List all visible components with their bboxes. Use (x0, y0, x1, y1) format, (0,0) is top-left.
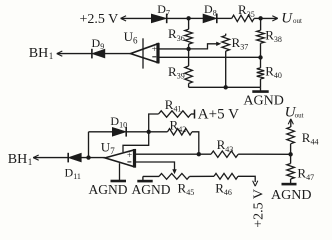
op-amp U6 (131, 44, 159, 63)
svg-text:10: 10 (119, 121, 127, 130)
svg-text:AGND: AGND (243, 93, 283, 108)
svg-text:U: U (281, 10, 293, 26)
svg-text:6: 6 (133, 36, 138, 46)
svg-text:D: D (157, 2, 166, 16)
ground AGND (U7 pin) (119, 163, 121, 181)
wire D11 to U7 output (81, 157, 105, 159)
svg-text:9: 9 (100, 42, 104, 51)
svg-text:R: R (265, 64, 274, 79)
resistor R36 (188, 18, 190, 29)
svg-text:41: 41 (174, 104, 182, 113)
wire D7 to node (167, 17, 189, 19)
ground AGND (R45) (142, 176, 144, 181)
svg-text:BH: BH (29, 46, 48, 61)
terminal arrow BH1 (bottom) (33, 155, 39, 160)
wire BH1 to D11 (33, 157, 68, 159)
svg-text:38: 38 (274, 35, 282, 44)
svg-text:45: 45 (186, 188, 194, 197)
svg-text:37: 37 (240, 42, 248, 51)
wire D9 to BH1 (top) (57, 53, 92, 55)
node output junction (bottom) (86, 155, 90, 159)
node noninverting input junction U6 (186, 47, 190, 51)
arrow up to Uout (bottom) (288, 119, 293, 125)
svg-text:11: 11 (73, 172, 81, 181)
resistor R42 (149, 131, 168, 133)
op-amp U7 (105, 150, 135, 167)
potentiometer R45 (143, 175, 159, 177)
svg-text:7: 7 (110, 146, 115, 156)
svg-text:BH: BH (8, 152, 27, 167)
svg-text:R: R (297, 165, 306, 180)
svg-text:D: D (92, 36, 101, 50)
wire U6 +input (158, 48, 189, 50)
svg-text:R: R (238, 2, 247, 17)
terminal arrow BH1 (top) (57, 51, 63, 56)
svg-text:R: R (168, 64, 177, 79)
svg-text:1: 1 (28, 157, 33, 167)
svg-text:R: R (215, 181, 224, 196)
resistor R43 (211, 151, 238, 157)
wire bottom rail (top circuit) (189, 86, 261, 88)
wire U7 -input to R45 wiper (135, 162, 175, 170)
wire wiper branch to R37 (189, 44, 217, 49)
svg-text:R: R (265, 28, 274, 43)
resistor R39 (188, 49, 190, 66)
svg-text:1: 1 (49, 51, 54, 61)
svg-text:40: 40 (274, 71, 282, 80)
wire R35 to output node (254, 17, 261, 19)
potentiometer R37 (225, 34, 227, 36)
svg-text:8: 8 (213, 9, 217, 18)
wire +2.5V to D7 (121, 17, 152, 19)
resistor R41 to A+5V (149, 114, 159, 132)
ground AGND (R47) (282, 183, 297, 186)
resistor R40 (260, 57, 262, 68)
terminal arrow at +2.5V (121, 16, 127, 21)
wire U7 V+ pin to D10 node (123, 132, 149, 153)
svg-text:R: R (165, 97, 174, 112)
svg-text:R: R (170, 118, 179, 133)
svg-text:R: R (168, 26, 177, 41)
resistor R46 (214, 173, 238, 179)
svg-text:+: + (127, 151, 132, 161)
svg-text:R: R (217, 137, 226, 152)
svg-text:AGND: AGND (132, 182, 171, 197)
resistor R38 (260, 18, 262, 30)
wire node to D8 (189, 17, 203, 19)
wire D8 to R35 (217, 17, 232, 19)
resistor R35 (232, 15, 254, 21)
svg-text:R: R (178, 181, 187, 196)
arrow to Uout (top) (261, 17, 277, 19)
svg-text:+: + (152, 45, 157, 55)
wire D10 to node (126, 131, 148, 133)
node inverting feedback junction (258, 55, 262, 59)
node U7 +input junction (197, 152, 201, 156)
node R44/R47 junction (288, 152, 292, 156)
svg-text:39: 39 (177, 72, 185, 81)
svg-text:44: 44 (311, 137, 319, 146)
svg-text:AGND: AGND (89, 182, 128, 197)
resistor R47 (290, 154, 292, 163)
svg-text:out: out (293, 17, 302, 25)
diode D10 (112, 127, 126, 136)
wire up to D10 (88, 132, 90, 158)
node output junction top (258, 16, 262, 20)
svg-text:D: D (65, 165, 74, 179)
wire R45 to R46 (190, 175, 215, 177)
svg-text:D: D (110, 114, 119, 128)
node junction top (R36 tap) (186, 16, 190, 20)
svg-text:43: 43 (225, 145, 233, 154)
resistor R44 (287, 127, 295, 144)
svg-text:out: out (295, 111, 304, 119)
svg-text:AGND: AGND (271, 188, 311, 203)
wire R43 to R44/R47 node (238, 153, 290, 155)
svg-text:36: 36 (177, 34, 185, 43)
diode D11 (68, 153, 81, 162)
svg-text:7: 7 (166, 9, 170, 18)
ground AGND (top circuit) (260, 87, 262, 91)
node D10/R41/R42 junction (147, 130, 151, 134)
svg-text:42: 42 (178, 125, 186, 134)
svg-text:35: 35 (247, 10, 255, 19)
diode D8 (203, 14, 217, 23)
terminal arrow +2.5V (bottom) (253, 181, 258, 187)
svg-text:+2.5 V: +2.5 V (80, 12, 119, 27)
svg-text:R: R (302, 130, 311, 145)
wire R46 to +2.5V terminal (238, 176, 255, 182)
svg-text:47: 47 (306, 173, 314, 182)
wire U6 output to D9 (105, 53, 131, 55)
svg-text:R: R (232, 35, 241, 50)
svg-text:D: D (204, 2, 213, 16)
node R37 bottom junction (224, 85, 228, 89)
svg-text:46: 46 (224, 188, 232, 197)
wire U7 +input line (135, 153, 212, 155)
diode D9 (92, 49, 105, 58)
svg-text:+2.5 V: +2.5 V (252, 189, 267, 228)
wire U6 -input to R38/R40 node (158, 56, 261, 58)
svg-text:A+5 V: A+5 V (198, 107, 239, 123)
diode D7 (151, 14, 166, 23)
